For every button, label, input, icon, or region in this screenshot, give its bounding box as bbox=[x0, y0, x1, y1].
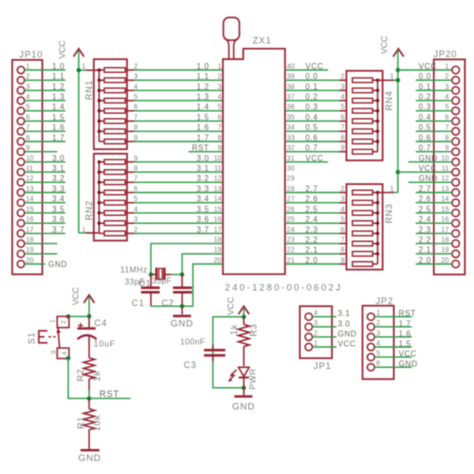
svg-text:8: 8 bbox=[134, 166, 138, 173]
svg-text:1.7: 1.7 bbox=[52, 133, 65, 142]
svg-text:8: 8 bbox=[341, 135, 345, 142]
svg-text:3.5: 3.5 bbox=[52, 205, 65, 214]
svg-text:3: 3 bbox=[218, 84, 222, 91]
svg-text:VCC: VCC bbox=[399, 350, 417, 359]
svg-text:3.1: 3.1 bbox=[52, 164, 65, 173]
svg-text:GND: GND bbox=[399, 360, 418, 369]
svg-text:1.7: 1.7 bbox=[197, 133, 210, 142]
svg-text:1.2: 1.2 bbox=[197, 82, 210, 91]
svg-text:7: 7 bbox=[134, 176, 138, 183]
svg-text:2: 2 bbox=[341, 186, 345, 193]
svg-text:1k: 1k bbox=[92, 371, 102, 382]
svg-text:8: 8 bbox=[341, 247, 345, 254]
svg-text:4: 4 bbox=[341, 94, 345, 101]
svg-text:C2: C2 bbox=[162, 298, 175, 308]
svg-text:33pF: 33pF bbox=[152, 276, 172, 285]
svg-text:2: 2 bbox=[134, 227, 138, 234]
svg-text:6: 6 bbox=[134, 186, 138, 193]
svg-text:7: 7 bbox=[341, 237, 345, 244]
svg-text:3.4: 3.4 bbox=[197, 195, 210, 204]
svg-text:8: 8 bbox=[218, 135, 222, 142]
svg-text:3.6: 3.6 bbox=[197, 215, 210, 224]
svg-text:9: 9 bbox=[341, 257, 345, 264]
svg-text:1.5: 1.5 bbox=[52, 113, 65, 122]
svg-text:VCC: VCC bbox=[419, 62, 437, 71]
svg-text:3.5: 3.5 bbox=[197, 205, 210, 214]
svg-text:3: 3 bbox=[134, 74, 138, 81]
svg-text:JP1: JP1 bbox=[314, 361, 332, 371]
svg-text:1: 1 bbox=[445, 63, 449, 70]
svg-text:GND: GND bbox=[171, 317, 194, 328]
svg-text:1.1: 1.1 bbox=[197, 72, 210, 81]
svg-text:9: 9 bbox=[341, 145, 345, 152]
svg-text:VCC: VCC bbox=[419, 164, 437, 173]
svg-text:PWR: PWR bbox=[247, 368, 257, 390]
svg-text:1.7: 1.7 bbox=[399, 319, 412, 328]
svg-text:1.6: 1.6 bbox=[197, 123, 210, 132]
svg-text:C4: C4 bbox=[94, 318, 107, 328]
svg-text:1.5: 1.5 bbox=[399, 340, 412, 349]
svg-text:GND: GND bbox=[232, 400, 255, 411]
svg-text:JP2: JP2 bbox=[376, 296, 394, 306]
svg-text:C3: C3 bbox=[184, 360, 197, 370]
svg-text:5: 5 bbox=[134, 196, 138, 203]
svg-text:R2: R2 bbox=[76, 369, 86, 382]
svg-text:4: 4 bbox=[341, 206, 345, 213]
svg-text:VCC: VCC bbox=[338, 340, 356, 349]
svg-text:7: 7 bbox=[218, 125, 222, 132]
svg-text:3.3: 3.3 bbox=[197, 184, 210, 193]
svg-text:29: 29 bbox=[287, 176, 295, 183]
svg-text:GND: GND bbox=[338, 329, 357, 338]
svg-text:3.0: 3.0 bbox=[338, 319, 351, 328]
svg-text:6: 6 bbox=[134, 104, 138, 111]
svg-text:1.5: 1.5 bbox=[197, 113, 210, 122]
svg-text:C1: C1 bbox=[132, 298, 145, 308]
svg-text:1.6: 1.6 bbox=[52, 123, 65, 132]
svg-text:2: 2 bbox=[218, 74, 222, 81]
svg-text:16: 16 bbox=[214, 217, 222, 224]
svg-text:3.7: 3.7 bbox=[197, 225, 210, 234]
svg-text:1.4: 1.4 bbox=[197, 103, 210, 112]
svg-text:2: 2 bbox=[60, 320, 67, 324]
svg-text:JP20: JP20 bbox=[434, 49, 458, 59]
svg-text:13: 13 bbox=[214, 186, 222, 193]
svg-text:R1: R1 bbox=[76, 416, 86, 429]
svg-text:RN3: RN3 bbox=[384, 203, 394, 223]
svg-text:8: 8 bbox=[134, 125, 138, 132]
svg-text:1: 1 bbox=[49, 319, 56, 323]
svg-text:VCC: VCC bbox=[226, 297, 236, 315]
svg-text:1: 1 bbox=[218, 63, 222, 70]
svg-text:9: 9 bbox=[134, 155, 138, 162]
svg-text:3: 3 bbox=[134, 217, 138, 224]
svg-text:6: 6 bbox=[341, 227, 345, 234]
svg-text:1.2: 1.2 bbox=[52, 82, 65, 91]
svg-text:4: 4 bbox=[61, 351, 68, 355]
svg-text:1.4: 1.4 bbox=[52, 103, 65, 112]
svg-text:1.0: 1.0 bbox=[52, 62, 65, 71]
svg-text:GND: GND bbox=[78, 452, 101, 463]
svg-text:6: 6 bbox=[218, 115, 222, 122]
svg-text:JP10: JP10 bbox=[19, 49, 43, 59]
svg-text:11: 11 bbox=[214, 166, 221, 173]
svg-text:240-1280-00-0602J: 240-1280-00-0602J bbox=[225, 283, 343, 293]
svg-text:5: 5 bbox=[134, 94, 138, 101]
svg-text:7: 7 bbox=[134, 115, 138, 122]
svg-text:11: 11 bbox=[442, 166, 449, 173]
svg-text:3.0: 3.0 bbox=[197, 154, 210, 163]
svg-text:33pF: 33pF bbox=[125, 277, 145, 286]
svg-text:R3: R3 bbox=[249, 324, 259, 337]
svg-text:VCC: VCC bbox=[57, 40, 67, 58]
svg-text:100nF: 100nF bbox=[180, 338, 205, 347]
svg-text:VCC: VCC bbox=[70, 287, 80, 305]
svg-text:1: 1 bbox=[82, 227, 86, 234]
svg-text:1.6: 1.6 bbox=[399, 329, 412, 338]
svg-text:1: 1 bbox=[82, 63, 86, 70]
svg-text:3.7: 3.7 bbox=[52, 225, 65, 234]
svg-text:5: 5 bbox=[218, 104, 222, 111]
svg-text:3.1: 3.1 bbox=[197, 164, 210, 173]
svg-text:10uF: 10uF bbox=[94, 339, 116, 349]
svg-text:2: 2 bbox=[134, 63, 138, 70]
svg-text:5: 5 bbox=[341, 104, 345, 111]
svg-text:30: 30 bbox=[287, 166, 295, 173]
svg-text:RN2: RN2 bbox=[84, 200, 94, 220]
svg-text:1.1: 1.1 bbox=[52, 72, 65, 81]
svg-text:RN4: RN4 bbox=[384, 91, 394, 111]
svg-text:1.0: 1.0 bbox=[197, 62, 210, 71]
svg-text:1.3: 1.3 bbox=[52, 93, 65, 102]
svg-text:2: 2 bbox=[341, 74, 345, 81]
svg-text:ZX1: ZX1 bbox=[253, 36, 272, 46]
svg-text:3.3: 3.3 bbox=[52, 184, 65, 193]
svg-text:3.4: 3.4 bbox=[52, 195, 65, 204]
svg-text:3: 3 bbox=[50, 350, 57, 354]
svg-text:3: 3 bbox=[341, 84, 345, 91]
svg-text:15: 15 bbox=[214, 206, 222, 213]
svg-text:1: 1 bbox=[390, 186, 394, 193]
svg-text:9: 9 bbox=[134, 135, 138, 142]
svg-text:3: 3 bbox=[341, 196, 345, 203]
svg-text:4: 4 bbox=[134, 84, 138, 91]
svg-text:10: 10 bbox=[214, 155, 222, 162]
svg-text:GND: GND bbox=[48, 260, 67, 269]
svg-text:S1: S1 bbox=[27, 332, 37, 344]
svg-text:11MHz: 11MHz bbox=[120, 265, 147, 274]
svg-text:14: 14 bbox=[214, 196, 222, 203]
svg-text:3.2: 3.2 bbox=[52, 174, 65, 183]
svg-text:3.2: 3.2 bbox=[197, 174, 210, 183]
svg-text:RN1: RN1 bbox=[84, 80, 94, 100]
svg-text:6: 6 bbox=[341, 115, 345, 122]
svg-text:VCC: VCC bbox=[379, 36, 389, 54]
svg-text:1: 1 bbox=[390, 74, 394, 81]
svg-text:RST: RST bbox=[99, 389, 119, 399]
svg-text:3.1: 3.1 bbox=[338, 309, 351, 318]
svg-text:3.6: 3.6 bbox=[52, 215, 65, 224]
svg-text:5: 5 bbox=[341, 217, 345, 224]
svg-text:3.0: 3.0 bbox=[52, 154, 65, 163]
svg-text:17: 17 bbox=[214, 227, 222, 234]
svg-text:12: 12 bbox=[214, 176, 222, 183]
svg-text:1.3: 1.3 bbox=[197, 93, 210, 102]
svg-text:4: 4 bbox=[134, 206, 138, 213]
svg-text:1k: 1k bbox=[229, 324, 239, 335]
svg-text:10k: 10k bbox=[92, 415, 102, 432]
svg-text:4: 4 bbox=[218, 94, 222, 101]
svg-text:7: 7 bbox=[341, 125, 345, 132]
svg-text:RST: RST bbox=[399, 309, 416, 318]
